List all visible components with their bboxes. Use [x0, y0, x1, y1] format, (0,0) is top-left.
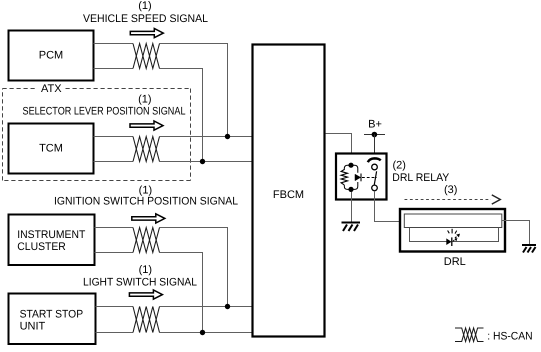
wire PCM CAN-H (upper) [94, 44, 228, 137]
ground (DRL) [522, 245, 536, 253]
svg-text:CLUSTER: CLUSTER [17, 241, 66, 253]
signal direction arrow (vehicle speed) [130, 29, 163, 38]
junction node CAN-L / START STOP [200, 330, 205, 335]
wire DRL to ground [502, 221, 530, 245]
svg-text:ATX: ATX [41, 83, 62, 95]
relay switch blade [374, 171, 376, 184]
svg-text:DRL: DRL [444, 256, 466, 268]
wire relay switch to DRL [375, 191, 405, 222]
FBCM module box [253, 45, 325, 337]
junction node CAN-H / START STOP [225, 304, 230, 309]
wire TCM CAN-L (lower) [94, 161, 253, 163]
signal direction arrow (light switch) [129, 290, 162, 299]
START STOP UNIT module box [9, 294, 96, 345]
svg-text:FBCM: FBCM [273, 189, 304, 201]
dashed arrow (3) DRL output [405, 199, 492, 201]
svg-text:DRL RELAY: DRL RELAY [392, 172, 450, 184]
relay switch bottom contact [372, 185, 378, 191]
HS-CAN legend twisted pair symbol [455, 328, 484, 342]
svg-text:(2): (2) [393, 160, 406, 172]
wire relay coil to ground [351, 192, 353, 222]
wire B+ to relay switch [374, 135, 376, 165]
wire INSTRUMENT CLUSTER CAN-H (upper) [95, 228, 228, 307]
svg-text:(3): (3) [444, 184, 457, 196]
twisted pair symbol (PCM HS-CAN) [133, 44, 160, 69]
B+ supply bar [364, 134, 385, 136]
PCM module box [9, 31, 94, 81]
relay switch arc [368, 158, 381, 162]
svg-text:TCM: TCM [39, 143, 63, 155]
relay suppression diode [355, 174, 361, 181]
wire START STOP UNIT CAN-L (lower) [96, 332, 253, 334]
svg-text:IGNITION SWITCH POSITION SIGNA: IGNITION SWITCH POSITION SIGNAL [54, 196, 238, 208]
svg-text:SELECTOR LEVER POSITION SIGNAL: SELECTOR LEVER POSITION SIGNAL [23, 106, 186, 118]
svg-text:INSTRUMENT: INSTRUMENT [17, 229, 85, 241]
svg-text:VEHICLE SPEED SIGNAL: VEHICLE SPEED SIGNAL [83, 13, 208, 25]
junction node CAN-H / TCM [225, 134, 230, 139]
relay coil resistor zigzag [341, 170, 347, 185]
junction node CAN-L / TCM [200, 159, 205, 164]
DRL relay box [336, 154, 387, 200]
junction node B+ [372, 132, 378, 138]
wire INSTRUMENT CLUSTER CAN-L (lower) [95, 253, 203, 333]
svg-text:B+: B+ [368, 119, 382, 131]
LED (DRL lamp) [446, 238, 451, 245]
signal direction arrow (ignition switch) [132, 214, 165, 223]
signal direction arrow (selector lever) [130, 121, 163, 130]
ground (relay) [342, 223, 361, 232]
svg-text:: HS-CAN: : HS-CAN [487, 330, 532, 342]
relay coil top node [348, 163, 353, 168]
svg-text:(1): (1) [138, 0, 151, 12]
twisted pair symbol (INSTRUMENT CLUSTER HS-CAN) [133, 228, 160, 253]
relay coil branch frame [344, 165, 358, 189]
DRL lamp unit box [400, 209, 505, 252]
ATX dashed enclosure [3, 89, 191, 181]
LED light rays [448, 229, 460, 241]
TCM module box [9, 124, 94, 174]
INSTRUMENT CLUSTER module box [9, 215, 95, 266]
relay switch top contact [372, 164, 378, 170]
wire FBCM to DRL relay coil [326, 134, 352, 164]
DRL internal bus bar [404, 214, 502, 228]
twisted pair symbol (START STOP UNIT HS-CAN) [133, 307, 160, 333]
svg-text:LIGHT SWITCH SIGNAL: LIGHT SWITCH SIGNAL [83, 277, 197, 289]
svg-text:PCM: PCM [39, 50, 63, 62]
wire TCM CAN-H (upper) [94, 136, 253, 138]
DRL lamp circuit loop [410, 228, 499, 242]
svg-text:START STOP: START STOP [20, 308, 84, 320]
wire START STOP UNIT CAN-H (upper) [96, 306, 253, 308]
wire PCM CAN-L (lower) [94, 69, 203, 162]
relay mechanical link (dashed) [362, 177, 377, 179]
relay coil bottom node [348, 187, 353, 192]
twisted pair symbol (TCM HS-CAN) [133, 137, 160, 162]
svg-text:(1): (1) [139, 264, 152, 276]
svg-text:(1): (1) [138, 94, 151, 106]
svg-text:UNIT: UNIT [20, 320, 46, 332]
